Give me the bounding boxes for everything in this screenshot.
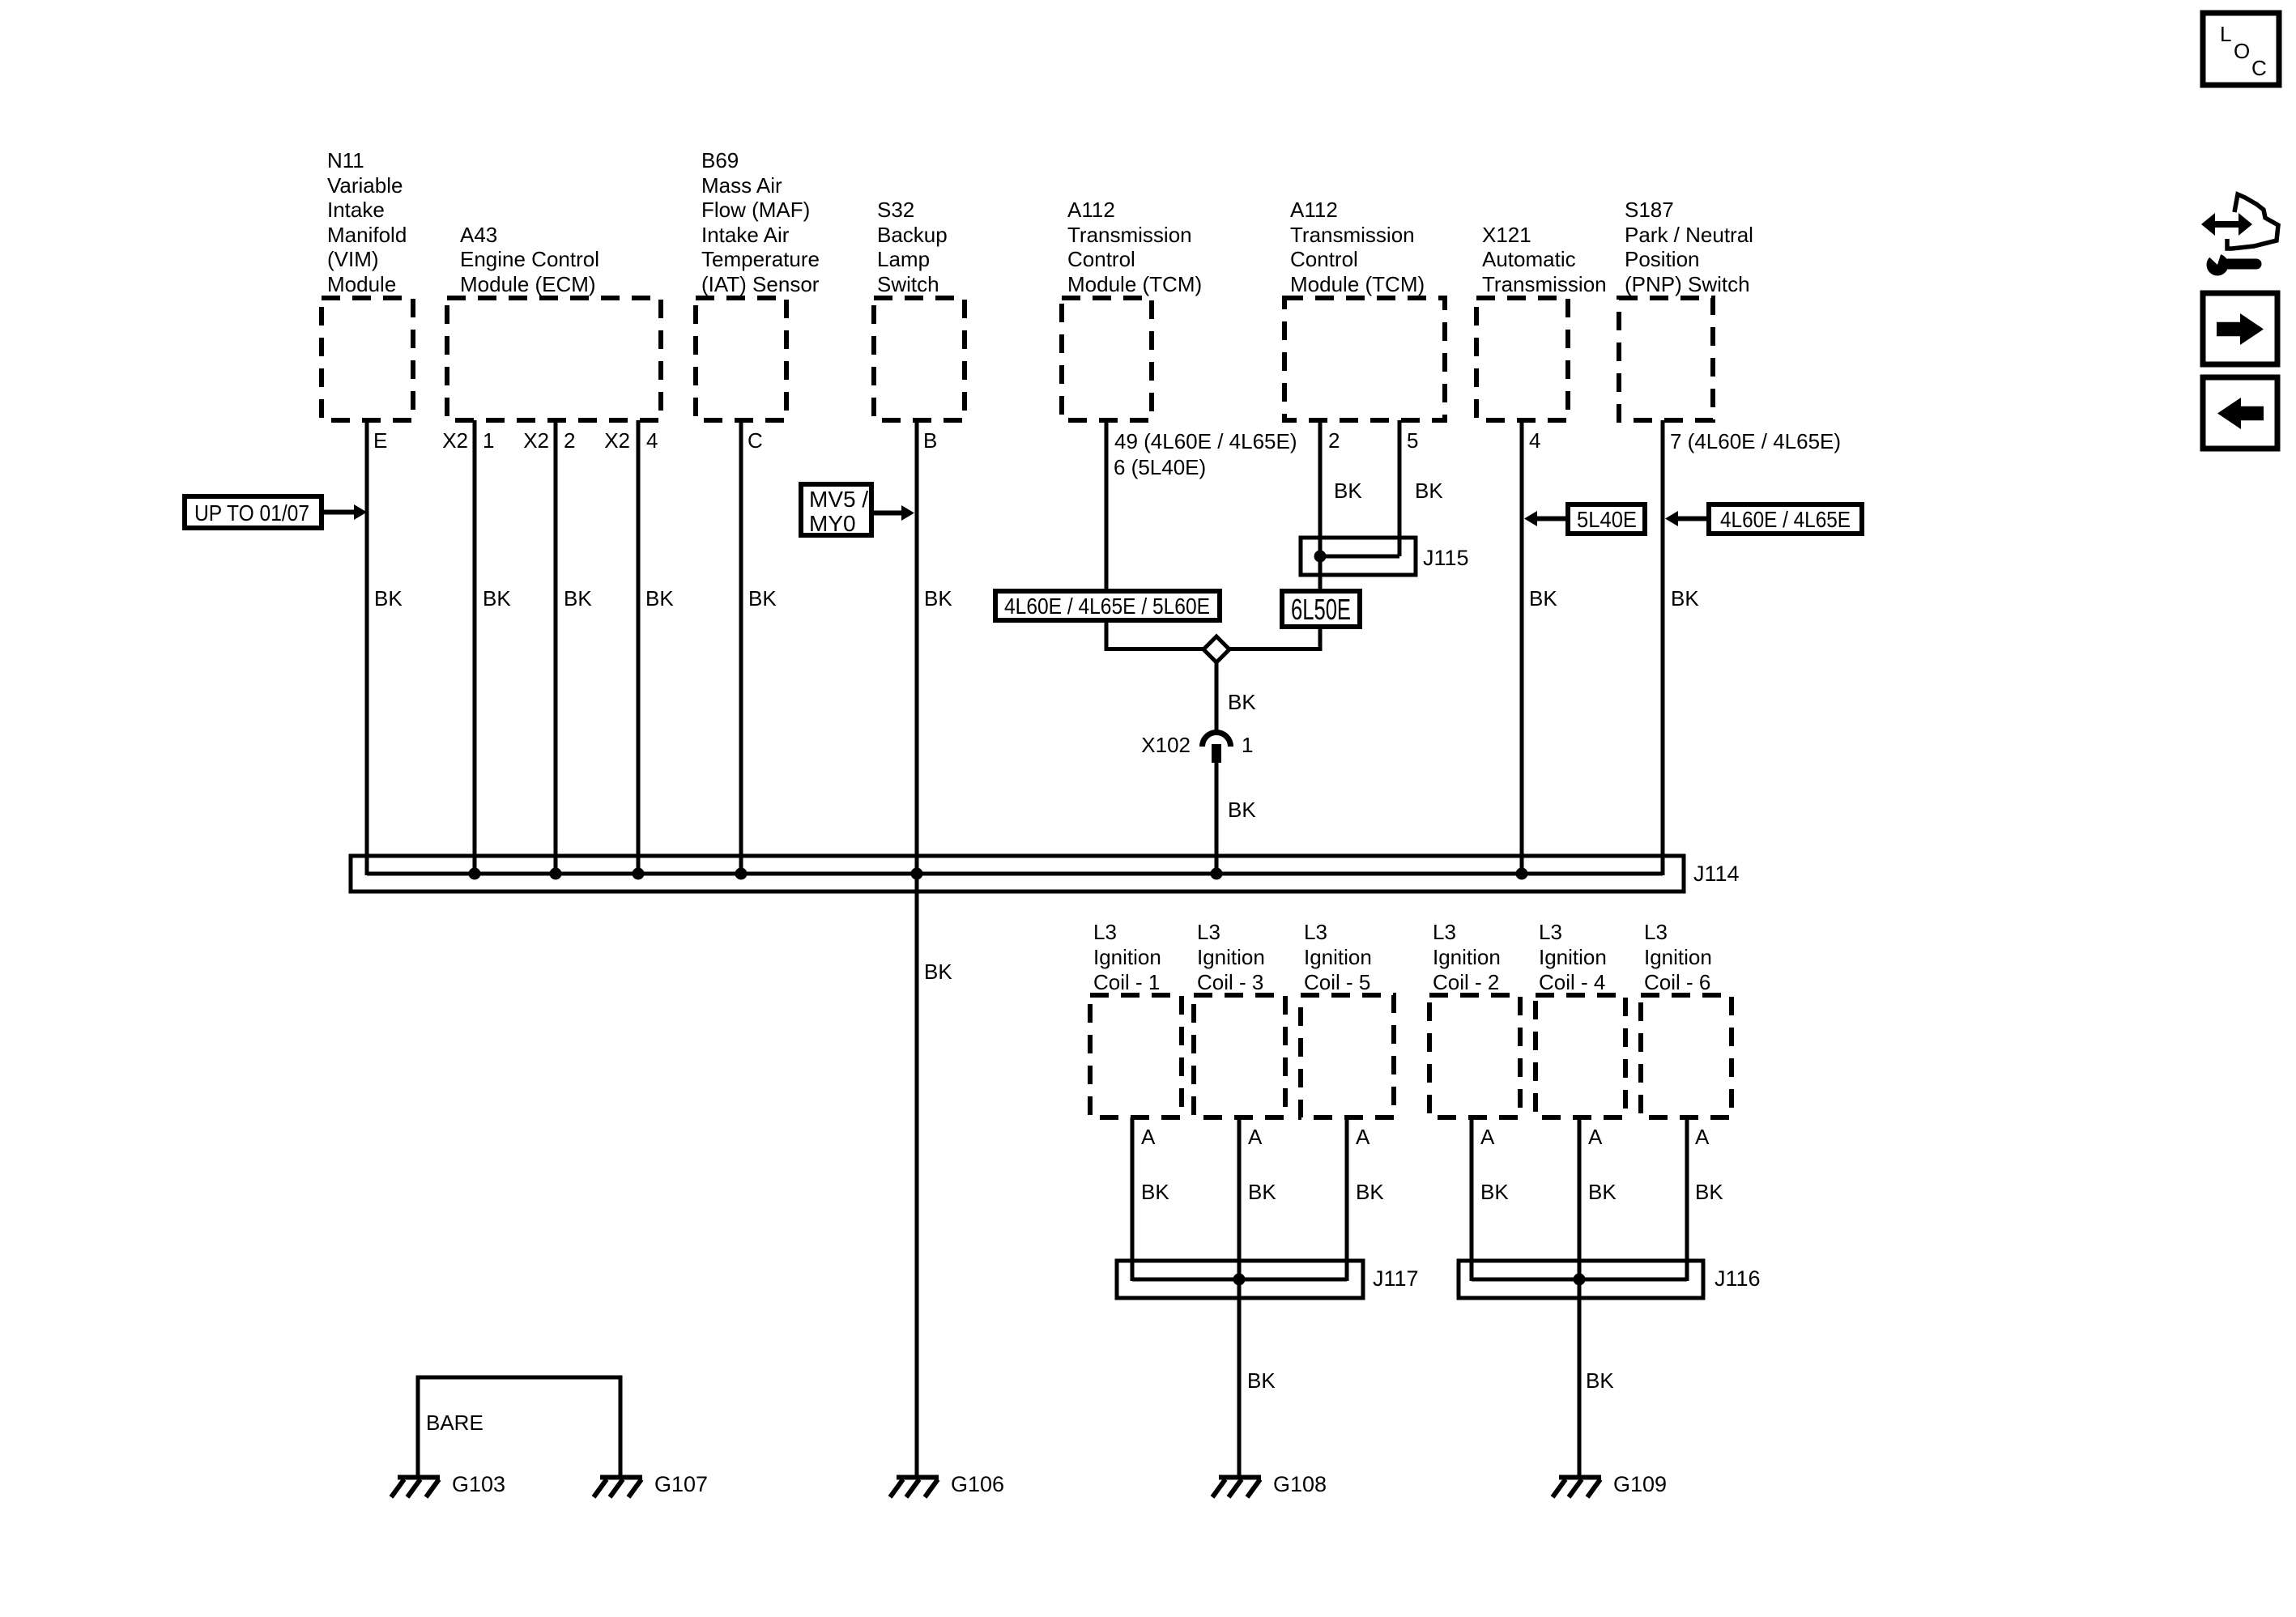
- svg-text:S187: S187: [1625, 198, 1674, 222]
- wire BK from coil 5 to J117: [1345, 1117, 1349, 1281]
- wire BK from TCM2 pin 2 through J115 to merge diamond: [1229, 420, 1320, 649]
- svg-text:G103: G103: [452, 1472, 505, 1496]
- svg-text:Ignition: Ignition: [1644, 945, 1712, 969]
- wire BK from coil 6 to J116: [1685, 1117, 1689, 1281]
- wire BK from X121 pin 4 to J114: [1520, 420, 1524, 875]
- wire BK from TCM2 pin 5 to J115: [1398, 420, 1402, 556]
- svg-text:Coil - 3: Coil - 3: [1197, 970, 1263, 994]
- svg-text:Transmission: Transmission: [1067, 223, 1192, 247]
- svg-text:(IAT) Sensor: (IAT) Sensor: [701, 272, 820, 296]
- svg-text:BK: BK: [1334, 479, 1362, 503]
- wire BARE loop between G103 and G107: [418, 1377, 620, 1475]
- svg-text:J114: J114: [1693, 862, 1740, 886]
- svg-text:J115: J115: [1423, 546, 1469, 570]
- svg-text:Manifold: Manifold: [327, 223, 407, 247]
- svg-text:BK: BK: [1588, 1180, 1617, 1204]
- svg-text:L: L: [2220, 22, 2231, 46]
- svg-text:Intake: Intake: [327, 198, 385, 222]
- svg-text:BK: BK: [483, 586, 511, 611]
- svg-text:2: 2: [1328, 428, 1340, 453]
- svg-text:L3: L3: [1197, 920, 1220, 944]
- svg-text:A43: A43: [460, 223, 497, 247]
- svg-text:G109: G109: [1613, 1472, 1667, 1496]
- svg-text:X102: X102: [1141, 733, 1191, 757]
- svg-text:BK: BK: [1529, 586, 1557, 611]
- ground G103: [391, 1478, 440, 1498]
- svg-text:MV5 /: MV5 /: [809, 487, 868, 512]
- wire BK from S32 pin B through J114 to G106: [915, 420, 919, 1475]
- wire BK from A43 pin X2-4 to J114: [637, 420, 641, 875]
- splice pack J116: [1459, 1261, 1703, 1298]
- svg-text:5: 5: [1407, 428, 1418, 453]
- wire BK from N11 pin E to J114: [365, 420, 369, 875]
- svg-text:BK: BK: [1356, 1180, 1384, 1204]
- svg-text:C: C: [748, 428, 763, 453]
- ground G107: [594, 1478, 642, 1498]
- splice pack J115: [1301, 538, 1416, 575]
- svg-text:L3: L3: [1093, 920, 1117, 944]
- svg-text:A: A: [1141, 1125, 1156, 1149]
- svg-text:Control: Control: [1067, 247, 1135, 271]
- svg-text:X2: X2: [604, 428, 630, 453]
- svg-text:X121: X121: [1482, 223, 1531, 247]
- svg-text:BK: BK: [1586, 1368, 1614, 1393]
- wire BK from coil 3 through J117 to G108: [1237, 1117, 1242, 1475]
- svg-text:Coil - 6: Coil - 6: [1644, 970, 1710, 994]
- svg-text:J117: J117: [1373, 1266, 1419, 1291]
- svg-text:Module (ECM): Module (ECM): [460, 272, 596, 296]
- svg-text:5L40E: 5L40E: [1577, 507, 1637, 532]
- svg-text:BK: BK: [1228, 798, 1256, 822]
- module S32 Backup Lamp Switch: [874, 198, 965, 420]
- wire BK from S187 pin 7 to J114: [1661, 420, 1665, 875]
- svg-text:(VIM): (VIM): [327, 247, 379, 271]
- coil L3 Ignition Coil - 3: [1194, 920, 1285, 1117]
- svg-text:A112: A112: [1290, 198, 1338, 222]
- svg-text:(PNP) Switch: (PNP) Switch: [1625, 272, 1750, 296]
- splice pack J114 ground bus: [351, 856, 1684, 891]
- svg-text:Module: Module: [327, 272, 396, 296]
- svg-text:A: A: [1588, 1125, 1603, 1149]
- svg-text:L3: L3: [1304, 920, 1327, 944]
- wire BK from X102 to J114: [1215, 763, 1219, 875]
- svg-text:Engine Control: Engine Control: [460, 247, 599, 271]
- wire BK from diamond to splice X102: [1215, 662, 1219, 734]
- svg-text:A112: A112: [1067, 198, 1115, 222]
- svg-text:L3: L3: [1539, 920, 1562, 944]
- icon arrow right box: [2203, 293, 2277, 364]
- flag MV5 / MY0 with arrow to S32 wire: [801, 484, 914, 536]
- icon engine harness with double arrow and wrench: [2201, 194, 2278, 276]
- svg-text:BK: BK: [564, 586, 592, 611]
- svg-text:J116: J116: [1715, 1266, 1761, 1291]
- svg-text:BK: BK: [1228, 690, 1256, 714]
- svg-text:BARE: BARE: [426, 1411, 483, 1435]
- svg-text:1: 1: [1242, 733, 1253, 757]
- ground G108: [1212, 1478, 1261, 1498]
- svg-text:Intake Air: Intake Air: [701, 223, 790, 247]
- coil L3 Ignition Coil - 2: [1429, 920, 1520, 1117]
- ground G109: [1553, 1478, 1601, 1498]
- svg-text:4: 4: [646, 428, 658, 453]
- svg-text:Backup: Backup: [877, 223, 948, 247]
- svg-text:Module (TCM): Module (TCM): [1067, 272, 1202, 296]
- svg-text:BK: BK: [924, 960, 952, 984]
- module B69 Mass Air Flow (MAF) Intake Air Temperature (IAT) Sensor: [696, 148, 820, 420]
- svg-text:BK: BK: [748, 586, 777, 611]
- svg-text:Transmission: Transmission: [1290, 223, 1415, 247]
- icon arrow left box: [2203, 377, 2277, 449]
- svg-text:UP TO 01/07: UP TO 01/07: [194, 500, 309, 526]
- svg-text:Ignition: Ignition: [1433, 945, 1501, 969]
- flag 4L60E / 4L65E with arrow to S187 wire: [1665, 504, 1862, 534]
- svg-text:B69: B69: [701, 148, 739, 172]
- pin X2 1 labels of A43: [442, 428, 494, 453]
- svg-text:C: C: [2251, 56, 2267, 80]
- svg-text:G108: G108: [1273, 1472, 1327, 1496]
- svg-text:Coil - 2: Coil - 2: [1433, 970, 1499, 994]
- svg-text:4: 4: [1529, 428, 1540, 453]
- legend LOC box: [2203, 13, 2279, 85]
- svg-text:BK: BK: [1480, 1180, 1509, 1204]
- svg-text:Lamp: Lamp: [877, 247, 930, 271]
- module A112 Transmission Control Module (TCM) second: [1284, 198, 1445, 420]
- flag 4L60E / 4L65E / 5L60E on TCM1 wire: [995, 591, 1220, 620]
- svg-text:S32: S32: [877, 198, 914, 222]
- svg-text:Coil - 4: Coil - 4: [1539, 970, 1605, 994]
- flag UP TO 01/07 with arrow to N11 wire: [185, 496, 367, 528]
- svg-text:N11: N11: [327, 148, 364, 172]
- pin 49/6 label of TCM1: [1114, 429, 1297, 479]
- svg-text:L3: L3: [1644, 920, 1668, 944]
- svg-text:49 (4L60E / 4L65E): 49 (4L60E / 4L65E): [1114, 429, 1297, 453]
- svg-text:Automatic: Automatic: [1482, 247, 1576, 271]
- svg-text:E: E: [373, 428, 387, 453]
- svg-text:Variable: Variable: [327, 173, 403, 198]
- svg-text:Ignition: Ignition: [1093, 945, 1161, 969]
- svg-text:Temperature: Temperature: [701, 247, 820, 271]
- svg-text:BK: BK: [374, 586, 403, 611]
- splice pack J117: [1117, 1261, 1363, 1298]
- svg-text:7 (4L60E / 4L65E): 7 (4L60E / 4L65E): [1670, 429, 1841, 453]
- wire BK from A43 pin X2-2 to J114: [554, 420, 558, 875]
- svg-text:X2: X2: [442, 428, 468, 453]
- svg-text:4L60E / 4L65E: 4L60E / 4L65E: [1720, 507, 1851, 532]
- svg-text:Switch: Switch: [877, 272, 939, 296]
- svg-text:A: A: [1480, 1125, 1495, 1149]
- flag 6L50E on TCM2 wire: [1282, 591, 1360, 627]
- svg-text:G107: G107: [654, 1472, 708, 1496]
- svg-text:G106: G106: [951, 1472, 1004, 1496]
- coil L3 Ignition Coil - 6: [1641, 920, 1732, 1117]
- svg-text:O: O: [2234, 39, 2250, 63]
- pin X2 4 labels of A43: [604, 428, 658, 453]
- wire BK from B69 pin C to J114: [739, 420, 743, 875]
- merge diamond node: [1203, 636, 1229, 662]
- svg-text:X2: X2: [523, 428, 549, 453]
- svg-text:B: B: [923, 428, 937, 453]
- splice connector X102 pin 1: [1203, 733, 1231, 764]
- wire BK from A43 pin X2-1 to J114: [473, 420, 477, 875]
- module A112 Transmission Control Module (TCM) first: [1062, 198, 1202, 420]
- flag 5L40E with arrow to X121 wire: [1524, 504, 1645, 534]
- module S187 Park / Neutral Position (PNP) Switch: [1619, 198, 1753, 420]
- module N11 Variable Intake Manifold (VIM) Module: [322, 148, 413, 420]
- svg-text:Transmission: Transmission: [1482, 272, 1607, 296]
- svg-text:6L50E: 6L50E: [1291, 593, 1351, 626]
- svg-text:Ignition: Ignition: [1197, 945, 1265, 969]
- wire BK from coil 2 to J116: [1470, 1117, 1474, 1281]
- svg-text:L3: L3: [1433, 920, 1456, 944]
- wire BK from coil 4 through J116 to G109: [1578, 1117, 1582, 1475]
- svg-text:Coil - 1: Coil - 1: [1093, 970, 1160, 994]
- svg-text:Coil - 5: Coil - 5: [1304, 970, 1370, 994]
- svg-text:BK: BK: [1247, 1368, 1276, 1393]
- svg-text:Control: Control: [1290, 247, 1358, 271]
- svg-text:4L60E / 4L65E / 5L60E: 4L60E / 4L65E / 5L60E: [1004, 594, 1210, 619]
- svg-text:Ignition: Ignition: [1539, 945, 1607, 969]
- svg-text:A: A: [1695, 1125, 1710, 1149]
- coil L3 Ignition Coil - 1: [1090, 920, 1182, 1117]
- svg-text:BK: BK: [1248, 1180, 1276, 1204]
- svg-text:BK: BK: [1141, 1180, 1169, 1204]
- svg-text:A: A: [1248, 1125, 1263, 1149]
- svg-text:BK: BK: [1671, 586, 1699, 611]
- svg-text:BK: BK: [924, 586, 952, 611]
- svg-text:MY0: MY0: [809, 511, 856, 536]
- svg-text:Module (TCM): Module (TCM): [1290, 272, 1425, 296]
- svg-text:BK: BK: [645, 586, 674, 611]
- svg-text:Mass Air: Mass Air: [701, 173, 782, 198]
- ground G106: [890, 1478, 939, 1498]
- svg-text:BK: BK: [1695, 1180, 1723, 1204]
- svg-text:2: 2: [564, 428, 575, 453]
- svg-text:A: A: [1356, 1125, 1370, 1149]
- wire BK from TCM1 pin 49 to merge diamond: [1106, 420, 1203, 649]
- module A43 Engine Control Module (ECM): [447, 223, 661, 420]
- pin X2 2 labels of A43: [523, 428, 575, 453]
- svg-text:6 (5L40E): 6 (5L40E): [1114, 455, 1206, 479]
- wire BK from coil 1 to J117: [1131, 1117, 1135, 1281]
- module X121 Automatic Transmission: [1476, 223, 1607, 420]
- coil L3 Ignition Coil - 5: [1301, 920, 1394, 1117]
- svg-text:Park / Neutral: Park / Neutral: [1625, 223, 1753, 247]
- coil L3 Ignition Coil - 4: [1536, 920, 1625, 1117]
- svg-text:Flow (MAF): Flow (MAF): [701, 198, 810, 222]
- svg-text:Position: Position: [1625, 247, 1700, 271]
- svg-text:1: 1: [483, 428, 494, 453]
- svg-text:BK: BK: [1415, 479, 1443, 503]
- svg-text:Ignition: Ignition: [1304, 945, 1372, 969]
